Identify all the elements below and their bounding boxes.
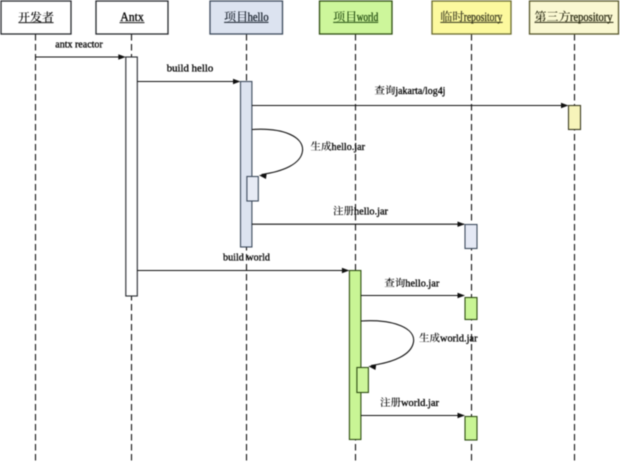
message arrow 注册world.jar — [361, 413, 465, 418]
lifeline 临时repository — [471, 34, 473, 464]
svg-text:hello: hello — [248, 10, 269, 24]
message arrow antx reactor — [35, 54, 126, 59]
svg-text:hello.jar: hello.jar — [405, 278, 439, 290]
activation bar 项目hello nested — [247, 177, 258, 202]
actor box 项目world — [320, 1, 393, 34]
activation bar 临时repository find-hello — [465, 298, 477, 320]
message arrow build hello — [137, 79, 240, 84]
svg-text:Antx: Antx — [120, 10, 144, 24]
lifeline 第三方repository — [574, 34, 576, 464]
self message arc 生成hello.jar — [252, 129, 303, 179]
label 注册world.jar — [380, 397, 439, 409]
svg-text:repository: repository — [570, 10, 613, 24]
label 注册hello.jar — [333, 206, 388, 218]
lifeline 项目hello — [246, 34, 248, 464]
activation bar 临时repository register-hello — [465, 225, 477, 249]
svg-text:world.jar: world.jar — [401, 397, 439, 409]
actor box 项目hello — [210, 1, 283, 34]
activation bar 项目hello main — [241, 82, 252, 248]
actor box 开发者 — [1, 1, 71, 34]
actor box 第三方repository — [530, 1, 619, 34]
lifeline 开发者 — [35, 34, 37, 464]
svg-text:jakarta/log4j: jakarta/log4j — [395, 85, 446, 97]
message arrow build world — [137, 268, 349, 273]
activation bar 临时repository register-world — [465, 417, 477, 441]
label 查询hello.jar — [385, 278, 440, 290]
activation bar Antx — [126, 57, 138, 296]
lifeline 项目world — [355, 34, 357, 464]
svg-text:world: world — [357, 10, 379, 24]
label antx reactor — [55, 38, 103, 50]
actor box 临时repository — [432, 1, 511, 34]
activation bar 第三方repository — [569, 106, 581, 130]
svg-text:antx reactor: antx reactor — [55, 38, 103, 50]
message arrow 查询jakarta/log4j — [252, 103, 569, 108]
label 生成world.jar — [419, 333, 477, 345]
activation bar 项目world nested — [357, 368, 369, 393]
label build world — [223, 252, 270, 264]
message arrow 查询hello.jar — [361, 293, 465, 298]
svg-text:build world: build world — [223, 252, 270, 264]
self message arc 生成world.jar — [361, 321, 414, 370]
activation bar 项目world main — [349, 271, 361, 440]
svg-text:repository: repository — [464, 10, 503, 24]
lifeline Antx — [131, 34, 133, 464]
svg-text:hello.jar: hello.jar — [354, 206, 388, 218]
svg-text:build hello: build hello — [167, 63, 214, 75]
message arrow 注册hello.jar — [252, 222, 465, 227]
label 查询jakarta/log4j — [375, 85, 446, 97]
label 生成hello.jar — [311, 141, 365, 153]
actor box Antx — [96, 1, 168, 34]
svg-text:world.jar: world.jar — [440, 333, 478, 345]
svg-text:hello.jar: hello.jar — [332, 141, 366, 153]
label build hello — [167, 63, 214, 75]
